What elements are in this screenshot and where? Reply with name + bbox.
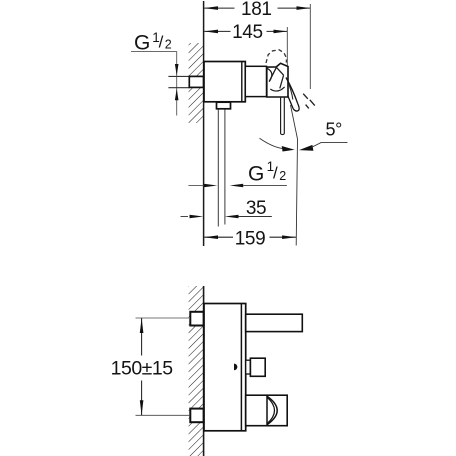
swing arc with arrows — [260, 138, 283, 148]
ext line 181 right — [309, 4, 311, 89]
dimension 159 — [204, 228, 296, 249]
faucet body (top view) — [204, 62, 245, 102]
svg-text:2: 2 — [279, 169, 286, 183]
svg-text:181: 181 — [241, 0, 272, 20]
dimension 145 — [204, 22, 287, 43]
G1/2 dim arrows (pipe) — [188, 184, 287, 188]
lever (solid, angled right) — [286, 78, 298, 104]
collar — [217, 102, 231, 109]
lever bar — [246, 314, 303, 331]
top tab — [190, 312, 203, 326]
narrow section — [245, 66, 266, 96]
down pipe — [217, 109, 219, 227]
bottom tab — [190, 409, 203, 423]
wall face line — [203, 286, 205, 456]
wall face / extension line — [203, 1, 205, 246]
svg-text:/: / — [159, 33, 164, 52]
fitting square in wall — [189, 76, 203, 87]
svg-text:/: / — [273, 164, 278, 183]
dashed lever tip marks — [303, 94, 315, 109]
svg-text:145: 145 — [232, 22, 263, 43]
wall hatching (bottom view) — [189, 286, 204, 456]
temperature mark — [234, 364, 237, 371]
dimension 181 — [204, 0, 310, 20]
outlet — [246, 395, 288, 426]
lever rod (down position) — [281, 97, 285, 135]
handle head — [267, 63, 288, 97]
ext lines of wall fitting — [168, 75, 189, 77]
5 degree slant line — [291, 105, 298, 139]
svg-text:150±15: 150±15 — [111, 358, 174, 380]
svg-text:G: G — [248, 163, 264, 186]
dashed handle (alt position) — [266, 50, 287, 63]
wall hatching (top view) — [189, 43, 204, 123]
label G 1/2 (top left) — [131, 30, 179, 116]
svg-text:5°: 5° — [326, 119, 343, 139]
body (bottom view) — [204, 304, 246, 431]
svg-text:35: 35 — [246, 198, 266, 219]
svg-text:159: 159 — [235, 228, 266, 249]
svg-text:2: 2 — [165, 38, 172, 52]
knob — [250, 358, 265, 376]
knob connector — [246, 360, 251, 374]
ext line 145 right — [286, 27, 288, 69]
dimension 150±15 — [111, 318, 190, 415]
label G 1/2 (middle) — [248, 159, 286, 186]
dimension 35 — [181, 198, 272, 219]
